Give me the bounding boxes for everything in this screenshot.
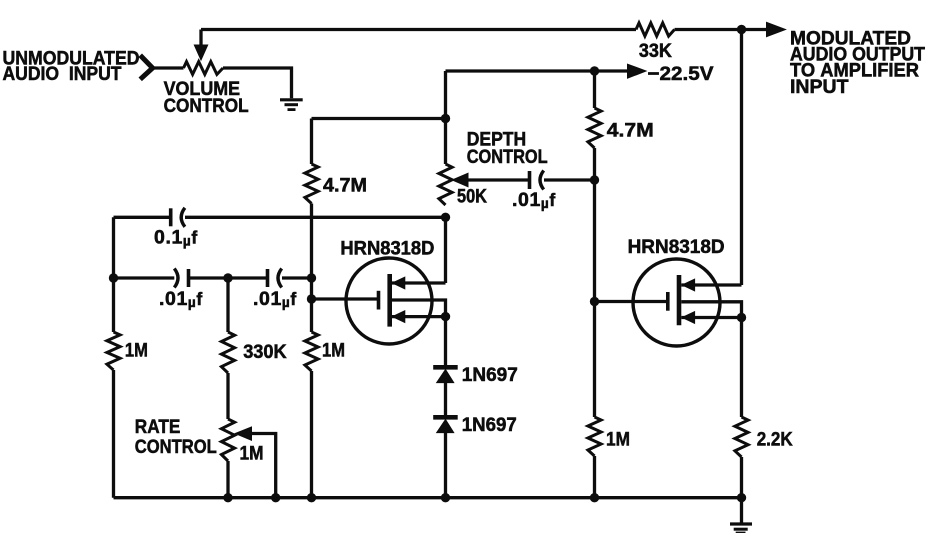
wire Q2 source to 2.2K [740,318,743,418]
wire input to volume control [152,66,183,69]
node Q1 source junction [441,312,450,321]
wire column B middle [226,373,229,419]
wire column B lower [226,461,229,498]
label ".01uf" (first) [159,288,203,310]
label "4.7M" (right) [607,120,654,142]
node A caps-row junction [109,273,118,282]
svg-text:.01µf: .01µf [159,288,203,310]
svg-text:.01µf: .01µf [512,189,556,211]
transistor Q2 HRN8318D (body) [633,259,720,346]
resistor 4.7M right (element) [588,108,601,148]
node B caps-row junction [223,273,232,282]
wire column E middle [593,148,596,417]
capacitor 0.1uf (element) [171,208,185,227]
node rate return junction [271,493,280,502]
svg-text:2.2K: 2.2K [757,429,793,451]
wire Q1 drain stub [392,277,446,289]
capacitor .01uf second (element) [268,269,282,288]
svg-text:INPUT: INPUT [790,76,849,98]
wire 0.1uf row left segment [114,216,171,219]
label "VOLUME CONTROL" [164,78,249,117]
wire 0.1uf row right segment [185,216,446,219]
label "-22.5V" [648,63,714,85]
wire Q2 drain riser (to top rail) [740,30,743,286]
node output junction [737,25,746,34]
resistor 330K (element) [221,332,234,373]
node D drain junction [441,213,450,222]
node supply / 4.7M junction [590,66,599,75]
svg-text:HRN8318D: HRN8318D [628,236,725,258]
input terminal chevron [140,55,152,79]
svg-text:330K: 330K [243,341,287,363]
wire top rail (wiper to 33K) [201,28,636,31]
wire depth wiper to capacitor [468,178,530,181]
label "2.2K" [757,429,793,451]
wire bottom rail [114,496,742,499]
wire column A upper [112,217,115,332]
transistor Q1 HRN8318D (body) [346,258,432,344]
label "1M" (column C) [322,340,345,362]
wire Q1 drain riser [444,217,447,283]
ground stem (bottom right) [740,498,743,523]
label "0.1uf" [154,227,198,249]
svg-text:1M: 1M [606,429,630,451]
wire column A lower [112,370,115,498]
arrow -22.5V [628,64,647,78]
node C caps-row junction [307,273,316,282]
svg-text:1M: 1M [240,443,264,465]
wire volume control to ground [223,68,292,98]
wire Q2 substrate stub [681,302,741,318]
wire column C lower [310,371,313,498]
diode D2 1N697 [433,417,458,432]
label "DEPTH CONTROL" [467,129,548,168]
wire caps row segment cap1-B [189,276,268,279]
svg-text:1M: 1M [125,340,148,362]
wire 2.2K to rail [740,457,743,498]
svg-text:HRN8318D: HRN8318D [340,237,434,259]
wire feedback (4.7M top) C to D [312,117,446,120]
potentiometer volume control (element) [184,62,224,75]
wire diode D2 to rail [444,433,447,498]
wire column C middle [310,204,313,333]
label "1M" (rate pot) [240,443,264,465]
wire 33K to output node [675,28,742,31]
wiper arrow of rate control [235,427,251,440]
label "1M" (column A) [125,340,148,362]
wire caps row segment A-cap1 [114,276,175,279]
node Q2 source junction [737,313,746,322]
node C gate junction [307,294,316,303]
svg-text:33K: 33K [639,40,672,62]
wire Q2 source stub [681,312,741,324]
wire Q1 source to diode D1 [444,317,447,366]
label "HRN8318D" (Q2) [628,236,725,258]
resistor 1M left column A (element) [107,332,120,370]
wire gate of Q2 [595,300,668,303]
resistor 4.7M left (element) [305,164,318,204]
resistor 1M column E (element) [588,417,601,456]
node F rail junction [737,493,746,502]
diode D1 1N697 [433,367,458,382]
wire rate wiper return [251,434,276,498]
label ".01uf" (depth cap) [512,189,556,211]
resistor 33K (element) [636,23,675,36]
ground (bottom right) [730,524,752,533]
wire Q1 source stub [392,311,446,323]
label "1N697" (D1) [462,364,518,386]
label "330K" [243,341,287,363]
resistor 2.2K (element) [735,417,748,457]
node B rail junction [223,493,232,502]
ground (volume control) [280,100,303,110]
node E rail junction [590,493,599,502]
output arrow [742,22,786,36]
wire depth capacitor to column E [544,178,595,181]
wire Q1 substrate stub [392,300,446,317]
wire node D top (supply down to depth pot) [444,71,447,164]
resistor 1M column C (element) [305,332,318,371]
svg-text:.01µf: .01µf [253,288,297,310]
node D rail junction [441,493,450,502]
label "MODULATED AUDIO OUTPUT TO AMPLIFIER INPUT" [790,27,925,98]
node E depth junction [590,175,599,184]
node E gate junction [590,297,599,306]
label ".01uf" (second) [253,288,297,310]
wire -22.5V supply line [446,69,629,72]
capacitor .01uf first (element) [174,269,188,288]
svg-text:CONTROL: CONTROL [164,95,249,117]
svg-text:50K: 50K [457,186,487,208]
node D / feedback-wire junction [441,114,450,123]
svg-text:CONTROL: CONTROL [135,436,217,458]
label "1M" (column E) [606,429,630,451]
wire column C top [310,119,313,165]
wire gate of Q1 [312,297,378,300]
svg-text:4.7M: 4.7M [607,120,654,142]
wire column B upper [226,278,229,332]
wire diode D1 to D2 [444,383,447,416]
svg-text:1N697: 1N697 [462,364,518,386]
wire column E top [593,71,596,108]
svg-text:−22.5V: −22.5V [648,63,714,85]
svg-text:AUDIO INPUT: AUDIO INPUT [3,63,122,85]
svg-text:4.7M: 4.7M [323,175,367,197]
wiper arrow of depth control [452,173,468,187]
wiper arrow of volume control [194,30,207,61]
svg-text:1N697: 1N697 [462,414,517,436]
wire Q2 drain stub [681,279,741,291]
svg-text:1M: 1M [322,340,345,362]
label "33K" [639,40,672,62]
svg-text:RATE: RATE [135,416,181,438]
wire caps row segment cap2-C [282,276,312,279]
svg-text:CONTROL: CONTROL [467,146,548,168]
potentiometer depth control 50K (element) [439,164,452,205]
node C rail junction [307,493,316,502]
label "4.7M" (left) [323,175,367,197]
capacitor .01uf (depth) element [530,171,544,190]
wire column E lower [593,456,596,498]
potentiometer rate control 1M (element) [221,419,234,461]
label "UNMODULATED AUDIO INPUT" [3,48,140,85]
label "50K" [457,186,487,208]
label "RATE CONTROL" [135,416,217,458]
svg-text:0.1µf: 0.1µf [154,227,198,249]
label "HRN8318D" (Q1) [340,237,434,259]
label "1N697" (D2) [462,414,517,436]
